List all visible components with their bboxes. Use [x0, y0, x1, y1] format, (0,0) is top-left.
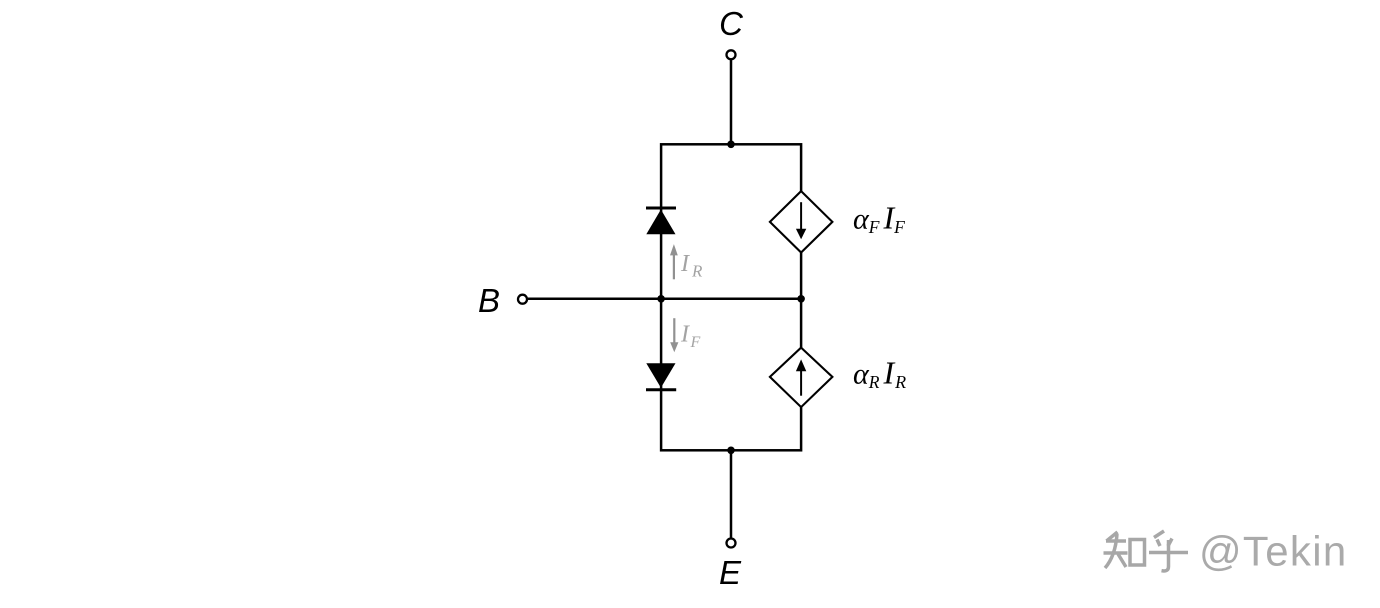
node: junction dot at bottom rail center	[727, 447, 735, 455]
知 right box	[1130, 540, 1145, 566]
svg-text:IR: IR	[680, 251, 703, 281]
svg-text:αFIF: αFIF	[853, 200, 905, 238]
current arrow IF (gray, down)	[673, 318, 675, 342]
svg-text:E: E	[719, 554, 742, 591]
node: junction dot at left branch / base row	[657, 295, 665, 303]
乎 strokes	[1154, 531, 1164, 538]
watermark: Zhihu logo text (drawn strokes for CJK)	[1104, 531, 1189, 571]
diode D1 triangle pointing up	[646, 210, 675, 235]
svg-text:B: B	[478, 282, 500, 319]
dependent current source aR*IR (lower diamond)	[770, 348, 833, 408]
svg-text:αRIR: αRIR	[853, 355, 906, 393]
diode D2 (lower, base-emitter): triangle pointing down	[646, 363, 675, 387]
terminal E open circle	[727, 539, 736, 548]
node: junction dot at top rail center	[727, 141, 735, 149]
dependent current source aF*IF (upper diamond)	[770, 191, 833, 252]
知 left radical	[1107, 532, 1118, 541]
diode D1 (upper, base-collector): cathode bar	[646, 207, 676, 210]
terminal B open circle	[518, 295, 527, 304]
svg-text:C: C	[719, 5, 744, 42]
arrow inside upper diamond (down)	[800, 202, 802, 230]
node: junction dot at right branch / base row	[797, 295, 805, 303]
wire: collector lead from C terminal down to top rail	[730, 60, 733, 145]
svg-text:@Tekin: @Tekin	[1199, 528, 1347, 575]
wire: base row from left branch to right branch	[661, 297, 801, 300]
diode D2 cathode bar	[646, 388, 676, 391]
arrow inside lower diamond (up)	[800, 368, 802, 396]
wire: base lead from B terminal to left branch	[528, 297, 661, 300]
current arrow IR (gray, up)	[673, 255, 675, 280]
wire: emitter lead from bottom rail down to E terminal	[730, 450, 733, 537]
svg-text:IF: IF	[680, 321, 701, 351]
wire: main rectangle loop (left branch, top rail, right branch, bottom rail)	[661, 144, 801, 450]
terminal C open circle	[727, 50, 736, 59]
